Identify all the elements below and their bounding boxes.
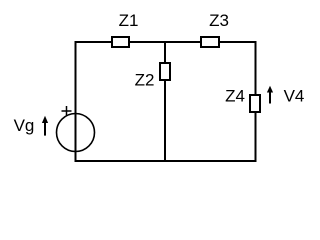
wire outer loop (top, left, right, bottom wires) [76, 42, 256, 161]
plus sign polarity mark [62, 106, 72, 116]
arrow for Vg [42, 116, 48, 123]
voltage source Vg circle [57, 114, 95, 152]
resistor Z1 [112, 37, 129, 47]
resistor Z4 [250, 95, 260, 112]
arrow for V4 [267, 86, 273, 93]
svg-text:Z4: Z4 [225, 87, 245, 106]
resistor Z2 [160, 63, 170, 80]
svg-text:V4: V4 [284, 87, 305, 106]
resistor Z3 [201, 37, 219, 47]
svg-text:Z3: Z3 [209, 11, 229, 30]
svg-text:Z2: Z2 [135, 71, 155, 90]
wire middle branch [164, 42, 166, 161]
svg-text:Z1: Z1 [119, 11, 139, 30]
svg-text:Vg: Vg [14, 116, 35, 135]
